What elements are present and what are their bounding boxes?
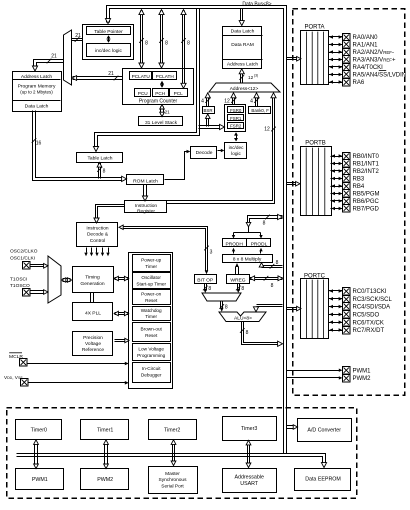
peripheral Timer0 [16,420,62,440]
wire address mux to address latch 12(3) [242,73,244,83]
wire data bus top + main vertical data bus [110,9,284,454]
wire ROM latch to instruction register [143,185,145,198]
svg-text:PORTB: PORTB [305,141,326,147]
svg-text:Low Voltage: Low Voltage [138,347,164,352]
pin RA5/AN4/SS/LVDIN [329,74,343,76]
wire PCLAT to PC up/down arrow [162,83,164,87]
wire clock mux to timing generation [63,281,71,283]
wire mux to table pointer 21 [72,40,83,42]
pin PWM2 [343,375,351,383]
svg-text:Oscillator: Oscillator [141,275,161,280]
svg-text:Reference: Reference [82,347,104,353]
svg-text:Addressable: Addressable [234,475,263,481]
svg-text:RC5/SDO: RC5/SDO [353,313,380,319]
svg-text:12: 12 [248,75,254,80]
system block In-Circuit Debugger [133,363,171,383]
svg-text:Register: Register [137,208,155,214]
svg-text:Data Latch: Data Latch [25,103,49,109]
decode box [191,147,217,159]
svg-text:Timer1: Timer1 [97,427,113,433]
pin RC4/SDI/SDA [329,306,343,308]
svg-text:FSR1: FSR1 [230,116,242,121]
svg-text:Programming: Programming [137,353,166,358]
table pointer block outer box [83,25,134,60]
svg-text:Program Memory: Program Memory [18,83,56,89]
svg-text:WREG: WREG [230,278,245,284]
svg-text:21: 21 [75,33,81,39]
svg-text:Start-up Timer: Start-up Timer [136,281,166,286]
register FSR2 [228,123,244,129]
svg-text:Watchdog: Watchdog [141,308,162,313]
svg-text:RB7/PGD: RB7/PGD [353,207,380,213]
pin RC5/SDO [329,314,343,316]
peripheral Master Synchronous Serial Port [149,467,198,494]
wire multiply to PRODL [260,251,262,254]
data memory block (Data Latch / Data RAM / Address Latch) [223,27,262,69]
svg-text:Address Latch: Address Latch [227,62,259,68]
wire mux to ALU 8 [220,301,222,309]
svg-text:RC0/T13CKI: RC0/T13CKI [353,289,387,295]
svg-text:Data Bus<8>: Data Bus<8> [242,1,271,7]
svg-text:4: 4 [201,99,204,105]
svg-text:8: 8 [103,169,106,175]
svg-text:logic: logic [231,151,241,156]
system block Power-on Reset [133,290,171,305]
wire data bus to PORTB [287,184,297,186]
peripheral Addressable USART [223,469,277,493]
wire split into PRODH and PRODL [248,227,250,233]
wire decode to inc/dec logic [218,150,222,152]
peripheral Timer3 [223,417,277,441]
wire T1OSC pin to clock mux [31,293,45,295]
svg-text:Timing: Timing [85,275,100,281]
wire ROM latch to decode [165,152,187,180]
wire timing generation to system block [115,279,129,281]
svg-text:A/D Converter: A/D Converter [307,427,341,433]
svg-text:RC6/TX/CK: RC6/TX/CK [353,320,384,326]
svg-text:RB1/INT1: RB1/INT1 [353,162,380,168]
wire WREG to data bus 8 [250,279,283,281]
wire PRODH PRODL to data bus 8 [248,216,283,223]
svg-text:PCH: PCH [155,91,165,96]
svg-text:21: 21 [108,71,114,77]
register PCLATU [130,72,152,80]
wire BSR to address mux 4 [208,97,210,107]
FSR block outer box [225,105,246,132]
peripheral Timer1 [81,420,129,440]
wire program counter to mux 21 [73,76,123,78]
pin RB1/INT1 [331,163,343,165]
peripherals dashed box [7,408,357,499]
register PCLATH [153,72,177,80]
pin RA1/AN1 [329,44,343,46]
pin RB0/INT0 [331,156,343,158]
svg-text:Master: Master [165,471,180,477]
pin RA0/AN0 [329,36,343,38]
svg-text:8: 8 [225,305,228,311]
wire voltage reference to system block [115,341,126,343]
pin RB7/PGD [331,208,343,210]
svg-text:(up to 2 Mbytes): (up to 2 Mbytes) [20,90,53,95]
wire multiply to PRODH [233,251,235,254]
svg-text:12: 12 [224,99,230,105]
svg-text:Address Latch: Address Latch [21,74,53,80]
svg-text:inc/dec logic: inc/dec logic [95,48,122,54]
wire peripheral bus connector Timer0/PWM1 [34,444,36,465]
svg-text:Instruction: Instruction [86,226,108,232]
svg-text:Timer3: Timer3 [241,426,257,432]
svg-text:RC7/RX/DT: RC7/RX/DT [353,328,385,334]
wire 4X PLL to system block [115,314,129,316]
wire data bus to PCLATH 8 [160,11,162,65]
timing generation box [73,267,114,293]
svg-text:8: 8 [246,330,249,336]
program counter block outer box [123,69,194,105]
ROM latch [127,175,164,185]
bit op box [195,275,217,284]
pin OSC [23,262,31,270]
svg-text:Table Pointer: Table Pointer [94,29,123,35]
svg-text:Timer: Timer [145,264,157,269]
wire branch to BSR and FSR2 [199,128,221,130]
wire table latch to program bus 8 [98,163,100,179]
pin RB5/PGM [331,193,343,195]
wire program memory data latch to ROM latch 16 [33,111,124,181]
svg-text:Address<12>: Address<12> [230,86,259,92]
svg-text:ROM Latch: ROM Latch [133,178,158,184]
svg-text:8: 8 [145,41,148,47]
svg-text:8: 8 [241,286,244,292]
wire data bus arrow into Table Pointer [105,19,110,24]
wire VDD VSS to system block [29,382,127,384]
svg-text:Timer2: Timer2 [164,427,180,433]
svg-text:OSC1/CLKI: OSC1/CLKI [10,255,35,261]
mux clock source [48,256,61,303]
svg-text:Program Counter: Program Counter [139,98,178,104]
svg-text:PWM2: PWM2 [97,477,113,483]
svg-text:8: 8 [187,41,190,47]
svg-text:4X PLL: 4X PLL [85,311,101,317]
svg-text:RB0/INT0: RB0/INT0 [353,154,380,160]
peripheral A/D Converter [298,419,352,442]
svg-text:Power-on: Power-on [141,292,161,297]
svg-text:RA5/AN4/SS/LVDIN: RA5/AN4/SS/LVDIN [353,73,407,79]
svg-text:PWM1: PWM1 [353,368,372,374]
pin RC6/TX/CK [329,322,343,324]
svg-text:Voltage: Voltage [85,341,101,347]
pin RC3/SCK/SCL [329,298,343,300]
svg-text:8: 8 [276,260,279,266]
wire OSC pin to clock mux [31,266,45,268]
svg-text:Timer: Timer [145,314,157,319]
svg-text:Bank0, F: Bank0, F [251,108,269,113]
pin T1OSC [23,289,31,297]
peripheral PWM2 [81,469,129,490]
system block Low Voltage Programming [133,344,171,361]
precision voltage reference box [73,332,113,356]
svg-text:RA6: RA6 [353,80,365,86]
pin RC7/RX/DT [329,330,343,332]
wire WREG to ALU mux 8 [237,284,239,291]
svg-text:Control: Control [90,238,105,244]
svg-text:BIT OP: BIT OP [197,278,213,284]
svg-text:PORTA: PORTA [304,25,324,31]
system block Power-up Timer [133,255,171,272]
pin RB6/PGC [331,200,343,202]
mux Address<12> [209,83,280,92]
pin RA4/T0CKI [329,66,343,68]
instruction decode and control box [77,223,118,247]
system block Watchdog Timer [133,307,171,321]
register Bank0,F [249,107,271,114]
system block Oscillator Start-up Timer [133,273,171,289]
svg-text:Power-up: Power-up [141,258,161,263]
wire data bus into data latch [240,9,242,21]
svg-text:Precision: Precision [83,335,103,341]
register FSR0 [228,107,244,113]
wire instruction decode to bit op 3 [121,229,206,272]
svg-text:RC4/SDI/SDA: RC4/SDI/SDA [353,305,391,311]
svg-text:BSR: BSR [203,108,212,113]
wire data bus to ALU right input [257,304,283,306]
wire instruction register to instruction decode [96,205,125,220]
table pointer register [87,27,131,35]
register FSR1 [228,115,244,121]
wire peripheral bus connector Timer1/PWM2 [104,444,106,465]
pll 4X PLL box [73,303,113,321]
wire data bus to PWM1 pin [287,370,340,372]
wire peripheral bus connector Timer2/MSSP [172,444,174,462]
svg-text:21: 21 [165,110,171,115]
svg-text:FSR0: FSR0 [230,108,242,113]
pin RA3/AN3/VREF+ [329,59,343,61]
svg-text:Reset: Reset [145,333,158,338]
svg-text:PCL: PCL [174,91,184,96]
wire mux to address latch 21 [34,60,64,68]
wire data bus to PORTA [287,59,299,61]
wire data bus to PWM2 pin [287,377,340,379]
svg-text:RA4/T0CKI: RA4/T0CKI [353,65,384,71]
svg-text:Synchronous: Synchronous [159,477,188,483]
wire FSR to address mux 12 [234,97,236,105]
wire data bus drop to table latch 8 [95,9,197,148]
svg-text:21: 21 [51,54,57,60]
svg-text:PWM2: PWM2 [353,376,372,382]
wire instruction register direct address 12 to address mux [167,96,275,204]
svg-text:8: 8 [165,41,168,47]
svg-text:OSC2/CLKO: OSC2/CLKO [10,249,38,255]
wire control signal arrows [86,248,88,253]
wire timing generation to 4X PLL [90,293,92,303]
pin RB4 [331,186,343,188]
peripheral Data EEPROM [295,469,351,491]
wire program counter to stack 21 [160,107,162,115]
register PCH [153,89,169,97]
svg-text:PCLATU: PCLATU [132,74,151,79]
svg-text:3: 3 [210,250,213,256]
system block Brown-out Reset [133,323,171,342]
pin RC0/T13CKI [329,290,343,292]
svg-text:Timer0: Timer0 [31,427,47,433]
wire data bus to PCLATU 8 [140,11,142,65]
svg-text:RB6/PGC: RB6/PGC [353,199,380,205]
svg-text:Instruction: Instruction [135,203,157,209]
mux 21-bit address [64,30,72,85]
svg-text:Reset: Reset [145,298,158,303]
svg-text:PRODH: PRODH [226,242,244,248]
inc/dec logic (table pointer) [87,44,131,57]
svg-text:31 Level Stack: 31 Level Stack [145,120,178,126]
svg-text:Data Latch: Data Latch [231,29,255,35]
svg-text:12: 12 [264,127,270,133]
wire data bus to multiply 8 [262,265,283,267]
svg-text:Decode &: Decode & [87,232,109,238]
svg-text:Brown-out: Brown-out [141,327,163,332]
svg-text:PCLATH: PCLATH [156,74,174,79]
register PRODL [247,239,271,247]
svg-text:8: 8 [271,283,274,289]
wire ALU output to data bus 8 [242,322,280,345]
alu ALU<8> [219,312,266,322]
multiplier 8 x 8 Multiply [223,255,273,263]
pin RB3 [331,178,343,180]
svg-text:RC3/SCK/SCL: RC3/SCK/SCL [353,297,393,303]
table latch [77,153,123,163]
svg-text:USART: USART [240,481,259,487]
wire data bus to PORTC [287,309,299,311]
svg-text:RB2/INT2: RB2/INT2 [353,169,380,175]
svg-text:RB4: RB4 [353,184,365,190]
mux ALU input [202,293,241,301]
svg-text:8: 8 [208,286,211,292]
svg-text:Data RAM: Data RAM [231,42,254,48]
svg-text:PRODL: PRODL [251,242,268,248]
pin PWM1 [343,367,351,375]
svg-text:4: 4 [250,99,253,105]
register WREG [227,275,250,284]
wire bit op to ALU mux 8 [204,284,206,291]
svg-text:Data EEPROM: Data EEPROM [305,477,341,483]
svg-text:RB5/PGM: RB5/PGM [353,192,380,198]
svg-text:16: 16 [36,141,42,147]
svg-text:In-Circuit: In-Circuit [142,366,161,371]
wire data bus to PCL 8 [182,11,184,85]
wire WREG to multiply [238,267,240,275]
wire table pointer internal up/down arrow [108,37,110,41]
svg-text:Debugger: Debugger [141,373,162,378]
svg-text:Table Latch: Table Latch [87,156,112,162]
wire Bank0,F to address mux 4 [257,97,259,107]
ports dashed box [293,9,405,396]
svg-text:FSR2: FSR2 [230,123,242,128]
instruction register [125,201,167,213]
svg-text:PCU: PCU [138,91,149,96]
svg-text:(3): (3) [254,74,258,78]
svg-text:8: 8 [263,220,266,226]
svg-text:T1OSCI: T1OSCI [10,276,27,282]
program memory block [13,72,62,112]
svg-text:Serial Port: Serial Port [161,483,184,489]
pin RA2/AN2/VREF- [329,52,343,54]
stack 31 Level Stack [139,117,183,126]
peripheral PWM1 [16,469,64,490]
wire peripheral bus connector Timer3/USART [247,445,249,464]
inc/dec logic (FSR) [225,143,247,159]
wire MCLR to system block [28,363,127,365]
system block outer box [129,253,173,389]
wire FSR to inc/dec logic up/down [236,134,238,141]
pin RB2/INT2 [331,170,343,172]
wire data bus to A/D converter [287,428,295,430]
register PRODH [223,239,247,247]
svg-text:PWM1: PWM1 [32,477,48,483]
register PCL [170,89,188,97]
svg-text:8 x 8 Multiply: 8 x 8 Multiply [233,257,262,263]
svg-text:Generation: Generation [80,281,104,287]
register PCU [135,89,151,97]
svg-text:ALU<8>: ALU<8> [234,316,252,322]
pin RA6 [329,82,343,84]
peripheral Timer2 [149,420,197,440]
svg-text:Decode: Decode [196,150,213,156]
node RA5 SS overline [379,70,386,72]
svg-text:inc/dec: inc/dec [229,145,245,150]
svg-text:RA1/AN1: RA1/AN1 [353,43,379,49]
wire peripheral bus [17,457,323,464]
register BSR [203,107,215,114]
svg-text:RA0/AN0: RA0/AN0 [353,35,379,41]
svg-text:RB3: RB3 [353,177,365,183]
